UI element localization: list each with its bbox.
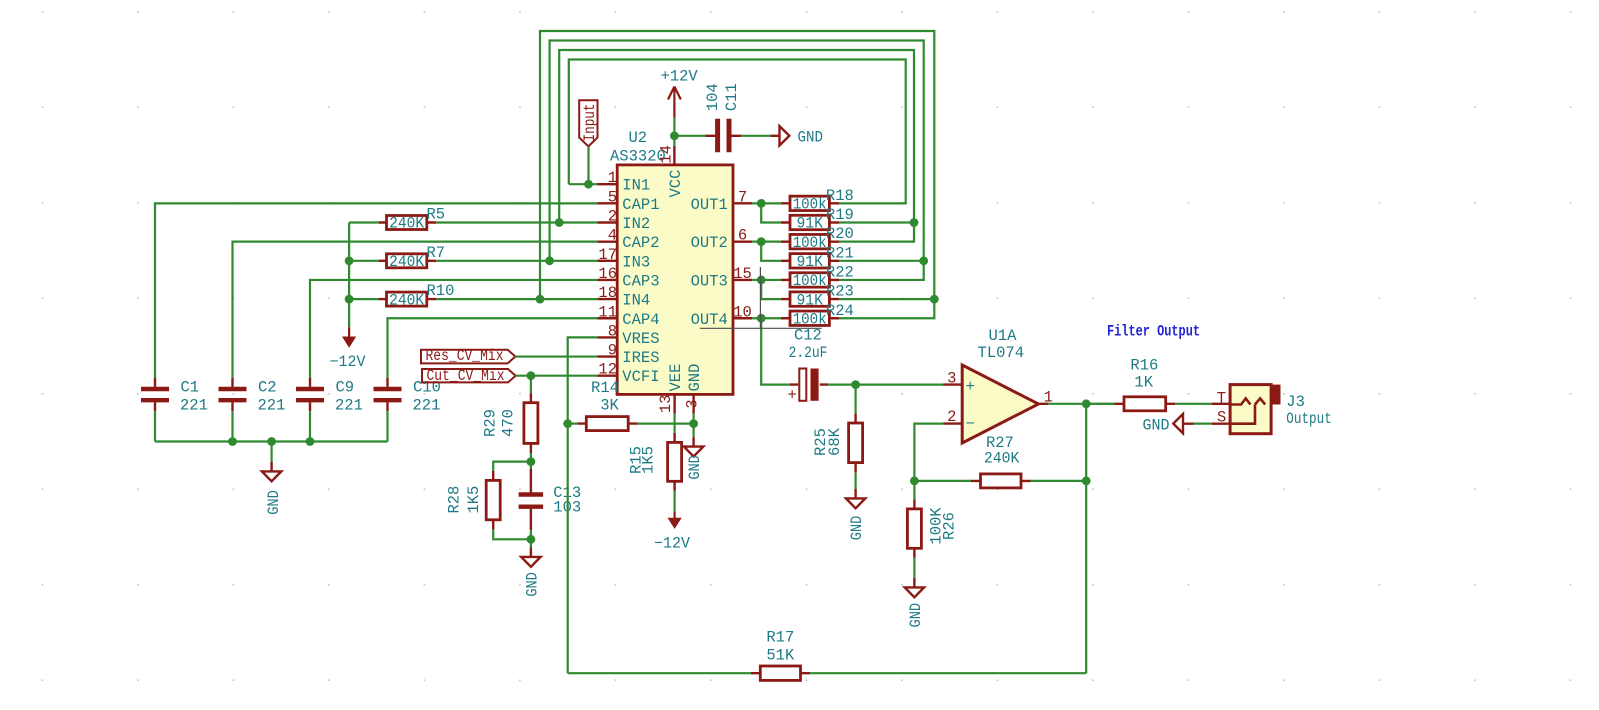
wire C9 top [310, 280, 597, 378]
junction C9 bus [306, 437, 315, 446]
capacitor C9 221 [309, 378, 311, 411]
svg-text:VEE: VEE [667, 364, 685, 392]
svg-text:16: 16 [598, 265, 617, 283]
svg-text:CAP3: CAP3 [622, 272, 659, 290]
svg-text:IN3: IN3 [622, 253, 650, 271]
resistor R5 240K [387, 216, 427, 230]
pin 1 IN1 [597, 183, 617, 185]
svg-text:240K: 240K [984, 450, 1020, 468]
wire OUT3 [752, 279, 781, 281]
R14 pins [577, 422, 638, 424]
svg-text:221: 221 [413, 397, 441, 415]
svg-text:Input: Input [581, 104, 599, 142]
wire C2 top [233, 242, 598, 378]
R16 pins [1115, 403, 1176, 405]
wire R27 right [1031, 480, 1087, 482]
svg-text:IN4: IN4 [622, 292, 650, 310]
wire loop R19-IN2 [559, 50, 914, 242]
svg-text:C11: C11 [723, 83, 741, 111]
svg-text:VRES: VRES [622, 330, 659, 348]
junction R27 right [1082, 477, 1091, 486]
resistor R20 100k [790, 234, 829, 248]
svg-text:91K: 91K [796, 215, 823, 233]
svg-text:GND: GND [686, 364, 704, 392]
wire loop OUT1-IN1 [569, 60, 906, 204]
capacitor C2 221 [231, 378, 233, 411]
op-amp pin 2 [943, 422, 962, 424]
svg-text:TL074: TL074 [978, 344, 1025, 362]
svg-text:C9: C9 [336, 379, 355, 397]
resistor R29 470 [524, 403, 538, 444]
R18 pins [781, 202, 839, 204]
svg-text:VCFI: VCFI [622, 368, 659, 386]
resistor R24 100k [790, 311, 829, 325]
wire C10 bottom [386, 411, 388, 441]
power -12V under R15 [673, 512, 675, 519]
junction OUT1 [757, 199, 766, 208]
pin 18 IN4 [597, 298, 617, 300]
op-amp U1A TL074 [962, 365, 1038, 443]
wire R16 to J3 T [1175, 403, 1212, 405]
J3 S pin [1212, 422, 1232, 424]
wire R7 to IN3 [436, 260, 597, 262]
wire VRES down [568, 337, 598, 673]
R29 pin top [530, 393, 532, 403]
capacitor C12 2.2uF [790, 383, 828, 385]
wire R17 right [810, 672, 1086, 674]
R26 pin bottom [913, 548, 915, 558]
junction C12/R25 [851, 380, 860, 389]
svg-text:CAP4: CAP4 [622, 311, 659, 329]
wire GND to J3 S [1194, 423, 1213, 425]
resistor R16 1K [1124, 397, 1166, 411]
wire R23 right [839, 298, 934, 300]
R19 pins [781, 221, 839, 223]
svg-text:R7: R7 [427, 244, 446, 262]
svg-text:18: 18 [598, 284, 617, 302]
svg-text:13: 13 [657, 394, 675, 413]
svg-text:GND: GND [523, 572, 541, 597]
capacitor C10 221 [386, 378, 388, 411]
resistor R25 68K [849, 423, 863, 463]
wire C1 top [155, 203, 597, 378]
svg-text:8: 8 [608, 322, 617, 340]
svg-text:J3: J3 [1286, 393, 1305, 411]
ground at J3 S [1173, 414, 1193, 434]
svg-text:240K: 240K [389, 291, 425, 309]
junction IN3 [545, 256, 554, 265]
wire out down [1085, 404, 1087, 673]
svg-text:GND: GND [907, 603, 925, 628]
wire C11 to GND [741, 135, 770, 137]
pin 15 OUT3 [733, 279, 752, 281]
svg-text:OUT2: OUT2 [691, 234, 728, 252]
ground under C13 [521, 547, 540, 566]
resistor R17 51K [760, 666, 800, 680]
svg-text:GND: GND [798, 128, 824, 146]
R28 pin bottom [492, 520, 494, 530]
wire bus to GND [271, 442, 273, 463]
svg-text:Res_CV_Mix: Res_CV_Mix [426, 347, 504, 365]
wire R25 to GND [854, 473, 856, 489]
ground pin3 [684, 437, 703, 456]
wire to R28 top [493, 462, 531, 471]
svg-text:221: 221 [258, 397, 286, 415]
wire R29 top [530, 376, 532, 394]
svg-text:R17: R17 [766, 629, 794, 647]
resistor R23 91K [790, 292, 829, 306]
wire C12 to opamp [828, 384, 943, 386]
wire R14 right [638, 423, 694, 425]
junction OUT3 [757, 276, 766, 285]
svg-text:2.2uF: 2.2uF [789, 344, 828, 362]
capacitor C1 221 [154, 378, 156, 411]
op-amp pin 3 [943, 383, 962, 385]
R28 pin top [492, 471, 494, 481]
svg-text:9: 9 [608, 342, 617, 360]
svg-text:221: 221 [335, 397, 363, 415]
wire C2 bottom [231, 411, 233, 441]
wire cap ground bus [155, 440, 388, 442]
junction R29/R28/C13 [527, 457, 536, 466]
svg-text:−12V: −12V [330, 353, 367, 371]
junction R10 -12V [345, 295, 354, 304]
R23 pins [781, 298, 839, 300]
svg-text:100k: 100k [793, 196, 827, 214]
wire R19 right [839, 221, 914, 223]
graphic stray lines [700, 267, 822, 328]
resistor R14 3K [586, 417, 628, 431]
svg-text:R28: R28 [446, 486, 464, 514]
pin 8 VRES [597, 336, 617, 338]
R25 pin top [854, 414, 856, 423]
junction IN2 [555, 218, 564, 227]
hierarchical label Res_CV_Mix [421, 350, 515, 364]
svg-text:OUT1: OUT1 [691, 196, 728, 214]
junction C13/GND [527, 535, 536, 544]
power +12V [668, 87, 681, 118]
wire R26 top [913, 481, 915, 500]
svg-text:Cut_CV_Mix: Cut_CV_Mix [427, 367, 505, 385]
svg-text:R5: R5 [427, 206, 446, 224]
R26 pin top [913, 499, 915, 509]
hierarchical label Cut_CV_Mix [422, 369, 516, 382]
pin 16 CAP3 [597, 279, 617, 281]
svg-text:2: 2 [608, 208, 617, 226]
wire OUT3 to 91K [761, 280, 781, 299]
svg-text:OUT3: OUT3 [691, 272, 728, 290]
svg-text:IN1: IN1 [622, 177, 650, 195]
power -12V left [348, 327, 350, 338]
svg-text:GND: GND [265, 490, 283, 515]
ground under R25 [846, 489, 865, 509]
pin 5 CAP1 [597, 202, 617, 204]
R17 pins [751, 672, 810, 674]
svg-text:CAP1: CAP1 [622, 196, 659, 214]
svg-text:VCC: VCC [667, 170, 685, 198]
wire opamp out [1048, 403, 1115, 405]
svg-text:6: 6 [738, 227, 747, 245]
svg-text:240K: 240K [389, 215, 425, 233]
R5 pins [379, 221, 437, 223]
R22 pins [781, 279, 839, 281]
svg-text:R16: R16 [1130, 357, 1158, 375]
svg-text:12: 12 [598, 361, 617, 379]
svg-text:IRES: IRES [622, 349, 659, 367]
svg-text:CAP2: CAP2 [622, 234, 659, 252]
svg-text:100k: 100k [793, 272, 827, 290]
ground under R26 [905, 578, 924, 597]
wire OUT2 to 91K [761, 242, 781, 261]
wire out to R16 [1086, 403, 1114, 405]
wire R15 to -12V [673, 491, 675, 512]
svg-text:R29: R29 [482, 409, 500, 437]
wire R25 top [854, 385, 856, 414]
svg-text:91K: 91K [796, 253, 823, 271]
svg-text:+: + [788, 387, 797, 405]
svg-text:S: S [1217, 408, 1226, 426]
svg-text:C12: C12 [794, 327, 822, 345]
resistor R18 100k [790, 196, 829, 210]
svg-text:15: 15 [733, 265, 752, 283]
ground GND right of C11 [771, 126, 790, 145]
wire -12V bus [349, 223, 379, 328]
wire R14 left [568, 423, 578, 425]
junction R26/R27 [910, 477, 919, 486]
resistor R7 240K [387, 254, 427, 268]
junction VCC/C11 [670, 131, 679, 140]
pin 7 OUT1 [733, 202, 752, 204]
resistor R26 100K [907, 509, 921, 548]
resistor R10 240K [387, 292, 427, 306]
wire R27 left [914, 480, 971, 482]
svg-text:51K: 51K [766, 647, 795, 665]
R27 pins [971, 480, 1031, 482]
svg-text:−12V: −12V [654, 535, 691, 553]
R21 pins [781, 260, 839, 262]
R24 pins [781, 317, 839, 319]
wire R26 to GND [913, 558, 915, 578]
pin 6 OUT2 [733, 240, 752, 242]
resistor R21 91K [790, 254, 829, 268]
junction IN1 [584, 180, 593, 189]
svg-text:221: 221 [180, 397, 208, 415]
capacitor C11 104 [706, 135, 742, 137]
wire VCC to C11 [674, 135, 705, 137]
svg-text:+12V: +12V [661, 67, 699, 85]
junction R19 loop [910, 218, 919, 227]
junction R23 loop [930, 295, 939, 304]
junction C2 bus [228, 437, 237, 446]
junction OUT4 [757, 314, 766, 323]
wire Res_CV_Mix to IRES [515, 355, 597, 357]
svg-text:3K: 3K [600, 397, 619, 415]
pin 13 VEE [673, 394, 675, 413]
junction R14/GND3 [689, 419, 698, 428]
wire C13 top [530, 462, 532, 469]
pin 4 CAP2 [597, 240, 617, 242]
resistor R19 91K [790, 215, 829, 229]
wire R17 left [568, 672, 751, 674]
R15 pin top [673, 433, 675, 443]
resistor R28 1K5 [486, 480, 500, 519]
svg-text:GND: GND [848, 516, 866, 541]
svg-text:104: 104 [704, 83, 722, 111]
pin 17 IN3 [597, 260, 617, 262]
pin 14 VCC [673, 146, 675, 165]
connector J3 audio jack [1230, 385, 1271, 434]
R15 pin bottom [673, 481, 675, 491]
R20 pins [781, 240, 839, 242]
pin 10 OUT4 [733, 317, 752, 319]
svg-text:U2: U2 [629, 129, 648, 147]
wire C13 bottom [530, 530, 532, 539]
junction R14 left [563, 419, 572, 428]
pin 2 IN2 [597, 221, 617, 223]
wire OUT4 to C12 [761, 318, 790, 384]
wire R10 to IN4 [436, 298, 597, 300]
R7 pins [379, 260, 437, 262]
wire pin2 to feedback [914, 424, 943, 481]
wire VEE down [673, 414, 675, 433]
svg-text:+: + [966, 378, 975, 396]
svg-text:68K: 68K [826, 427, 844, 456]
svg-text:91K: 91K [796, 291, 823, 309]
op-amp pin 1 [1039, 403, 1049, 405]
svg-text:OUT4: OUT4 [691, 311, 728, 329]
wire OUT4 [752, 317, 781, 319]
svg-text:1: 1 [608, 169, 617, 187]
wire loop R21-IN3 [550, 41, 924, 280]
svg-text:IN2: IN2 [622, 215, 650, 233]
svg-text:470: 470 [500, 409, 518, 437]
junction R21 loop [919, 256, 928, 265]
svg-text:−: − [966, 415, 975, 433]
C13 pin bottom [530, 509, 532, 530]
wire Cut_CV_Mix to VCFI [516, 375, 598, 377]
svg-text:Output: Output [1286, 410, 1332, 428]
wire OUT1 [752, 202, 781, 204]
svg-text:GND: GND [686, 455, 704, 480]
svg-text:14: 14 [657, 145, 675, 164]
wire to GND C13 [530, 539, 532, 547]
C13 pin top [530, 469, 532, 493]
R29 pin bottom [530, 443, 532, 453]
svg-text:R26: R26 [941, 512, 959, 540]
svg-text:Filter Output: Filter Output [1107, 323, 1200, 341]
pin 12 VCFI [597, 375, 617, 377]
wire Input to IN1 [587, 146, 589, 184]
junction out [1082, 399, 1091, 408]
wire R5 to IN2 [436, 221, 597, 223]
ground under caps [262, 462, 281, 481]
wire pin3 down [692, 414, 694, 438]
junction IN4 [536, 295, 545, 304]
wire +12V to VCC [673, 118, 675, 146]
pin 3 GND [692, 394, 694, 413]
R25 pin bottom [854, 463, 856, 473]
J3 T pin [1212, 403, 1232, 405]
wire C9 bottom [309, 411, 311, 441]
resistor R27 240K [981, 474, 1022, 488]
svg-text:5: 5 [608, 188, 617, 206]
resistor R15 1K5 [668, 442, 682, 481]
svg-text:1K: 1K [1134, 374, 1153, 392]
wire R29 to C13 [530, 453, 532, 462]
junction VCFI/R29 [527, 371, 536, 380]
svg-text:10: 10 [733, 303, 752, 321]
svg-text:GND: GND [1143, 416, 1170, 434]
junction R7 -12V [345, 256, 354, 265]
wire R21 right [839, 260, 924, 262]
R10 pins [379, 298, 437, 300]
svg-text:3: 3 [947, 370, 956, 388]
svg-text:R10: R10 [427, 282, 455, 300]
svg-text:1K5: 1K5 [465, 486, 483, 514]
svg-text:17: 17 [598, 246, 617, 264]
wire C1 bottom [154, 411, 156, 441]
svg-text:7: 7 [738, 188, 747, 206]
svg-text:C1: C1 [181, 379, 200, 397]
wire IN1 segment [569, 183, 597, 185]
svg-text:C2: C2 [258, 379, 277, 397]
capacitor C13 103 [519, 495, 544, 507]
svg-text:3: 3 [684, 399, 702, 408]
hierarchical label Input [579, 100, 597, 146]
svg-text:11: 11 [598, 303, 617, 321]
svg-text:2: 2 [947, 408, 956, 426]
IC U2 AS3320 body [617, 165, 733, 395]
junction GND bus [267, 437, 276, 446]
pin 11 CAP4 [597, 317, 617, 319]
svg-text:100k: 100k [793, 234, 827, 252]
junction OUT2 [757, 237, 766, 246]
pin 9 IRES [597, 355, 617, 357]
svg-text:U1A: U1A [989, 327, 1018, 345]
svg-text:T: T [1217, 390, 1226, 408]
wire OUT2 [752, 241, 781, 243]
wire OUT1 to 91K [761, 203, 781, 222]
wire loop R23-IN4 [540, 31, 934, 318]
svg-text:4: 4 [608, 227, 617, 245]
wire R28 bottom [493, 529, 531, 539]
wire C10 top [388, 318, 598, 378]
resistor R22 100k [790, 273, 829, 287]
svg-text:1K5: 1K5 [640, 446, 658, 474]
svg-text:240K: 240K [389, 253, 425, 271]
svg-text:R14: R14 [591, 379, 619, 397]
